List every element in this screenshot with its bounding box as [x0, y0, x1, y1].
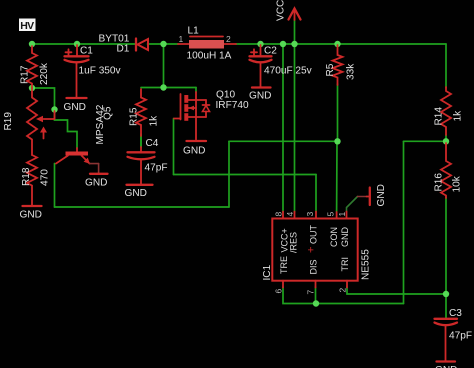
resistor R16 10k: [434, 143, 463, 198]
wire C4 top: [140, 136, 142, 147]
svg-text:C3: C3: [449, 308, 462, 319]
svg-text:D1: D1: [117, 44, 130, 55]
capacitor C3 47pF: [435, 308, 473, 361]
potentiometer R19: [3, 88, 55, 155]
svg-text:HV: HV: [20, 20, 34, 32]
junction node R17/R19: [29, 85, 35, 91]
wire Q5 collector net bottom horizontal: [55, 206, 230, 208]
svg-text:1k: 1k: [149, 115, 160, 127]
resistor R5 33k: [325, 45, 357, 85]
wire Q5 collector net horizontal: [229, 140, 338, 142]
inductor L1 100uH 1A: [178, 26, 236, 62]
wire R15 bottom to C4: [140, 134, 142, 147]
svg-text:CON: CON: [329, 227, 339, 247]
svg-text:33k: 33k: [346, 63, 357, 80]
wire pin 2 to C3 node: [347, 287, 446, 294]
svg-text:R17: R17: [20, 65, 31, 84]
wire pin 3 vertical: [315, 175, 317, 213]
svg-text:C4: C4: [146, 138, 159, 149]
pin 7 DIS: [306, 259, 319, 294]
resistor R17 220k: [20, 46, 51, 88]
svg-text:GND: GND: [183, 146, 205, 157]
svg-text:TRI: TRI: [340, 257, 350, 272]
svg-text:R5: R5: [325, 63, 336, 76]
wire R16 bottom to C3: [445, 197, 447, 318]
svg-text:R16: R16: [434, 173, 445, 192]
junction node C2: [257, 41, 263, 47]
resistor R15 1k: [129, 89, 160, 136]
svg-text:470: 470: [40, 169, 51, 186]
svg-text:C1: C1: [80, 46, 93, 57]
wire R5 bottom to net: [337, 84, 339, 141]
wire R5 node to IC pin 5: [336, 141, 338, 212]
wire gate net horizontal to pin 3: [174, 174, 317, 176]
wire Q10 gate down: [173, 119, 175, 175]
svg-text:GND: GND: [20, 210, 42, 221]
svg-text:DIS: DIS: [309, 259, 319, 274]
junction node HV/R17: [29, 41, 35, 47]
pin 6 TRE: [274, 256, 290, 294]
svg-text:5: 5: [326, 212, 336, 217]
svg-text:100uH 1A: 100uH 1A: [187, 51, 232, 62]
svg-text:6: 6: [274, 289, 284, 294]
wire L1 to VCC rail right: [236, 43, 446, 45]
junction node D1/L1 branch: [160, 41, 166, 47]
svg-text:GND: GND: [125, 188, 147, 199]
svg-text:4: 4: [285, 212, 295, 217]
pin 3 OUT: [305, 212, 319, 245]
wire Q5 collector drop: [54, 164, 56, 208]
junction node R19 wiper: [51, 106, 57, 112]
svg-text:1uF 350v: 1uF 350v: [79, 66, 122, 77]
wire HV top rail left: [32, 43, 136, 45]
capacitor C2 470uF 25v: [250, 45, 313, 87]
junction node C1: [74, 41, 80, 47]
junction node VCC arrow: [291, 41, 297, 47]
svg-text:7: 7: [306, 290, 316, 295]
svg-text:VCC: VCC: [276, 0, 287, 21]
junction node pins 6-7: [313, 300, 319, 306]
junction node R5 top: [334, 41, 340, 47]
svg-text:R15: R15: [129, 107, 140, 126]
wire R14/R16 node horizontal: [404, 140, 447, 142]
svg-text:NE555: NE555: [361, 249, 372, 280]
ground below C2: [249, 88, 271, 102]
ground below C3: [435, 362, 457, 368]
svg-text:TRE: TRE: [279, 256, 289, 274]
svg-text:GND: GND: [64, 102, 86, 113]
wire pins 6-7 riser vertical: [403, 141, 405, 303]
resistor R18 470: [21, 155, 51, 205]
svg-text:3: 3: [305, 212, 315, 217]
net label HV: [19, 19, 36, 32]
wire pin 1 to GND: [347, 197, 358, 212]
pin 2 TRI: [338, 257, 351, 293]
svg-text:2: 2: [226, 34, 231, 44]
wire pin1 gnd horizontal: [358, 196, 367, 198]
svg-text:10k: 10k: [452, 175, 463, 192]
svg-text:Q10: Q10: [216, 90, 235, 101]
svg-text:R14: R14: [434, 107, 445, 126]
junction node R15/Q10 drain: [160, 84, 166, 90]
wire pin 7 drop: [315, 287, 317, 304]
wire pins 6-7 horizontal: [316, 303, 404, 305]
wire R14 bottom to node: [445, 135, 447, 141]
wire R15 top horizontal: [141, 87, 196, 89]
junction node pin8: [280, 41, 286, 47]
svg-text:+: +: [308, 245, 314, 257]
svg-text:GND: GND: [249, 91, 271, 102]
wire VCC rail corner down to R14: [445, 44, 447, 88]
svg-text:8: 8: [274, 212, 284, 217]
svg-text:GND: GND: [340, 227, 350, 248]
wire VCC symbol stem: [294, 19, 296, 44]
wire R17 bottom to divider node: [32, 88, 77, 148]
pin 4 /RES: [285, 212, 299, 254]
wire VCC to IC pin 8: [282, 44, 284, 212]
svg-text:Q5: Q5: [103, 106, 114, 120]
svg-text:1k: 1k: [453, 110, 464, 122]
op-amp-style IC body IC1 NE555: [262, 219, 372, 281]
svg-text:R18: R18: [21, 167, 32, 186]
ground right of pin 1: [367, 184, 388, 206]
svg-text:OUT: OUT: [309, 225, 319, 245]
svg-text:GND: GND: [85, 178, 107, 189]
capacitor C1 1uF 350v: [65, 45, 122, 97]
wire Q10 drain stub: [195, 88, 197, 93]
capacitor C4 47pF: [128, 138, 168, 184]
wire diode anode to L1 node: [148, 43, 179, 45]
power symbol VCC: [276, 0, 301, 21]
mosfet Q10 IRF740: [174, 90, 249, 140]
resistor R14 1k: [434, 87, 464, 135]
svg-text:1: 1: [179, 34, 184, 44]
svg-text:IC1: IC1: [262, 264, 273, 280]
svg-text:470uF 25v: 470uF 25v: [264, 66, 313, 77]
junction node C3/R16/pin2: [443, 291, 449, 297]
svg-text:IRF740: IRF740: [216, 100, 249, 111]
transistor Q5 MPSA42: [56, 104, 114, 173]
svg-text:R19: R19: [3, 112, 14, 131]
svg-text:1: 1: [337, 212, 347, 217]
ground below R18: [20, 206, 42, 221]
wire node to R15/Q10 drain branch vertical: [163, 44, 165, 88]
wire pin 6 drop: [283, 287, 316, 304]
wire Q5 collector net vertical riser: [228, 141, 230, 207]
svg-text:GND: GND: [376, 184, 387, 206]
ground below C1: [64, 98, 87, 113]
ground below C4: [125, 185, 153, 199]
svg-text:47pF: 47pF: [145, 163, 168, 174]
wire VCC to IC pin 4: [294, 44, 296, 212]
svg-text:/RES: /RES: [289, 232, 299, 253]
pin 1 GND: [337, 212, 350, 248]
svg-text:47pF: 47pF: [449, 331, 472, 342]
ground below Q10 source: [183, 141, 206, 157]
svg-text:L1: L1: [188, 26, 200, 37]
svg-text:220k: 220k: [39, 62, 50, 85]
pin 5 CON: [326, 212, 340, 248]
junction node R14/R16: [443, 138, 449, 144]
svg-text:2: 2: [338, 288, 348, 293]
ground below Q5 emitter: [85, 174, 108, 189]
diode D1 BYT01: [99, 34, 149, 55]
pin 8 VCC+: [274, 212, 290, 253]
junction node R5/collector net: [334, 138, 340, 144]
svg-text:C2: C2: [264, 46, 277, 57]
